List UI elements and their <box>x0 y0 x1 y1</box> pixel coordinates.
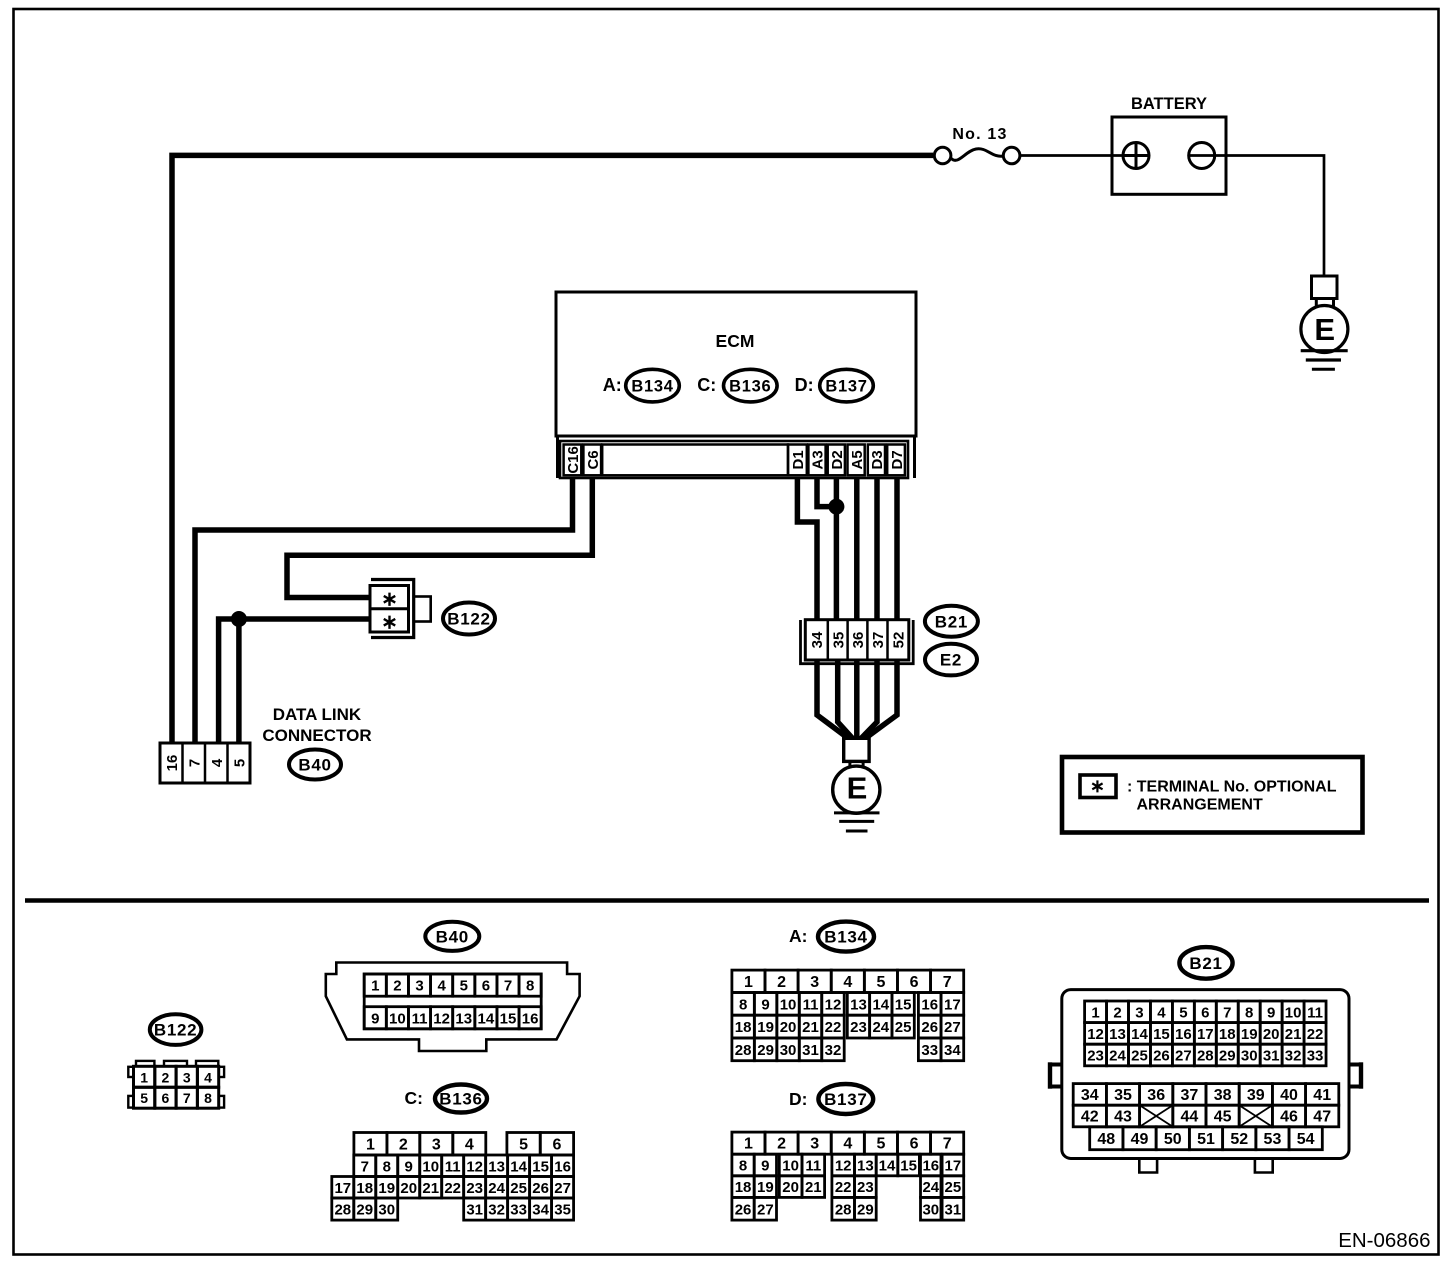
svg-text:25: 25 <box>510 1180 527 1197</box>
svg-text:A5: A5 <box>849 450 866 469</box>
svg-text:21: 21 <box>422 1180 439 1197</box>
svg-text:8: 8 <box>739 1158 747 1175</box>
svg-text:24: 24 <box>922 1179 939 1196</box>
svg-text:47: 47 <box>1313 1109 1331 1126</box>
svg-text:42: 42 <box>1081 1109 1099 1126</box>
svg-text:6: 6 <box>910 1136 919 1153</box>
svg-text:19: 19 <box>757 1019 774 1036</box>
DLC pin row 16 7 4 5 <box>160 743 250 783</box>
svg-text:17: 17 <box>944 996 961 1013</box>
svg-text:7: 7 <box>1223 1004 1231 1021</box>
svg-text:B21: B21 <box>935 612 968 631</box>
svg-text:2: 2 <box>777 974 786 991</box>
svg-text:2: 2 <box>777 1136 786 1153</box>
svg-text:8: 8 <box>383 1158 391 1175</box>
B136 row 7-16 <box>354 1155 376 1177</box>
svg-text:28: 28 <box>334 1202 351 1219</box>
connector B122 (2-pin) <box>371 580 414 638</box>
svg-text:5: 5 <box>1179 1004 1187 1021</box>
svg-text:13: 13 <box>455 1010 472 1027</box>
svg-text:ECM: ECM <box>716 331 755 351</box>
svg-text:27: 27 <box>1175 1048 1192 1065</box>
svg-text:A:: A: <box>789 926 807 946</box>
svg-text:37: 37 <box>870 632 887 649</box>
svg-text:D:: D: <box>795 375 814 395</box>
svg-text:31: 31 <box>466 1202 483 1219</box>
svg-text:11: 11 <box>445 1158 461 1175</box>
svg-text:14: 14 <box>1131 1026 1148 1043</box>
svg-text:27: 27 <box>554 1180 571 1197</box>
svg-text:E: E <box>1314 312 1335 347</box>
svg-text:33: 33 <box>510 1202 527 1219</box>
ECM pin C6 <box>583 445 601 476</box>
svg-text:D7: D7 <box>889 450 906 469</box>
svg-text:12: 12 <box>433 1010 450 1027</box>
svg-text:5: 5 <box>876 974 885 991</box>
legend: terminal optional arrangement <box>1062 757 1363 833</box>
svg-text:18: 18 <box>735 1179 752 1196</box>
svg-text:53: 53 <box>1264 1131 1282 1148</box>
svg-text:52: 52 <box>891 632 908 649</box>
ground symbol (battery side) <box>1301 349 1348 352</box>
svg-text:B134: B134 <box>824 928 867 947</box>
svg-text:C:: C: <box>405 1088 423 1108</box>
svg-text:20: 20 <box>1263 1026 1280 1043</box>
svg-text:14: 14 <box>510 1158 527 1175</box>
svg-text:21: 21 <box>805 1179 822 1196</box>
svg-text:ARRANGEMENT: ARRANGEMENT <box>1137 797 1263 814</box>
svg-text:∗: ∗ <box>381 589 398 611</box>
svg-text:29: 29 <box>757 1042 774 1059</box>
B122 pin grid 1-8 <box>134 1066 155 1087</box>
svg-text:A3: A3 <box>810 450 827 469</box>
wire: ECM D2 to B21 pin 35 <box>834 477 840 640</box>
svg-text:6: 6 <box>1201 1004 1209 1021</box>
svg-text:7: 7 <box>943 1136 952 1153</box>
svg-text:49: 49 <box>1131 1131 1149 1148</box>
svg-text:30: 30 <box>1241 1048 1258 1065</box>
svg-text:22: 22 <box>444 1180 461 1197</box>
B137 row 1-7 <box>732 1132 765 1154</box>
wire: ECM A5 to B21 pin 36 <box>854 477 860 640</box>
label oval B21 <box>925 606 978 637</box>
svg-text:B136: B136 <box>439 1090 482 1109</box>
svg-text:28: 28 <box>735 1042 752 1059</box>
svg-text:34: 34 <box>1081 1087 1099 1104</box>
svg-text:8: 8 <box>1245 1004 1253 1021</box>
svg-text:16: 16 <box>921 996 938 1013</box>
junction node (A3/D2) <box>828 499 844 515</box>
svg-text:34: 34 <box>809 631 826 648</box>
svg-text:14: 14 <box>879 1158 896 1175</box>
svg-text:29: 29 <box>857 1201 874 1218</box>
ECM box U1 <box>556 292 916 436</box>
svg-text:20: 20 <box>780 1019 797 1036</box>
wire: pin 52 to ground join <box>863 640 897 740</box>
wire: DLC pin 5 <box>236 619 242 743</box>
wire: ECM D1 to B21 pin 34 <box>797 477 817 640</box>
svg-text:26: 26 <box>532 1180 549 1197</box>
svg-text:18: 18 <box>356 1180 373 1197</box>
svg-text:26: 26 <box>921 1019 938 1036</box>
svg-text:29: 29 <box>356 1202 373 1219</box>
ECM pin D1 <box>788 445 807 476</box>
svg-text:12: 12 <box>1087 1026 1104 1043</box>
svg-text:B137: B137 <box>825 378 867 396</box>
svg-text:32: 32 <box>1285 1048 1302 1065</box>
ECM pin strip <box>560 441 908 478</box>
svg-text:D:: D: <box>789 1089 807 1109</box>
B21 grid 48-54 <box>1090 1127 1123 1150</box>
svg-text:31: 31 <box>945 1201 962 1218</box>
svg-text:2: 2 <box>399 1136 408 1153</box>
svg-text:CONNECTOR: CONNECTOR <box>262 726 371 745</box>
svg-text:35: 35 <box>554 1202 571 1219</box>
svg-text:4: 4 <box>437 978 446 995</box>
battery positive terminal <box>1123 143 1149 169</box>
svg-text:33: 33 <box>921 1042 938 1059</box>
svg-text:18: 18 <box>1219 1026 1236 1043</box>
svg-text:1: 1 <box>371 978 379 995</box>
wire: fuse to battery positive <box>1020 154 1123 157</box>
svg-text:14: 14 <box>872 996 889 1013</box>
wire: DLC pin 4 to B122 pin <box>219 619 370 743</box>
svg-text:6: 6 <box>910 974 919 991</box>
svg-text:13: 13 <box>850 996 867 1013</box>
section divider line <box>25 898 1429 903</box>
B21 grid 34-47 <box>1073 1084 1106 1106</box>
svg-text:1: 1 <box>744 974 753 991</box>
svg-text:4: 4 <box>204 1069 212 1085</box>
pin row 34 35 36 37 52 <box>805 620 909 660</box>
svg-text:13: 13 <box>1109 1026 1126 1043</box>
svg-text:4: 4 <box>209 758 226 767</box>
svg-text:8: 8 <box>526 978 534 995</box>
svg-text:38: 38 <box>1214 1087 1232 1104</box>
B21 grid 1-33 <box>1085 1001 1107 1023</box>
svg-text:19: 19 <box>1241 1026 1258 1043</box>
svg-text:C16: C16 <box>565 446 582 474</box>
svg-text:D2: D2 <box>829 450 846 469</box>
svg-text:13: 13 <box>488 1158 505 1175</box>
svg-text:10: 10 <box>389 1010 406 1027</box>
svg-text:21: 21 <box>802 1019 819 1036</box>
svg-text:48: 48 <box>1097 1131 1115 1148</box>
svg-text:D1: D1 <box>790 450 807 469</box>
svg-text:10: 10 <box>780 996 797 1013</box>
wire: ECM A3 to junction <box>817 477 836 507</box>
svg-text:32: 32 <box>825 1042 842 1059</box>
svg-text:5: 5 <box>460 978 468 995</box>
svg-text:54: 54 <box>1297 1131 1315 1148</box>
svg-text:16: 16 <box>554 1158 571 1175</box>
B137 row 8-17 <box>732 1154 754 1176</box>
B40 housing outline <box>326 963 580 1052</box>
svg-text:12: 12 <box>825 996 842 1013</box>
svg-text:32: 32 <box>488 1202 505 1219</box>
svg-text:18: 18 <box>735 1019 752 1036</box>
svg-text:3: 3 <box>432 1136 441 1153</box>
ground terminal E (sensor ground) <box>844 738 869 761</box>
ECM pin C16 <box>564 445 582 476</box>
svg-text:34: 34 <box>532 1202 549 1219</box>
svg-text:16: 16 <box>164 755 181 772</box>
ECM pin D3 <box>868 445 885 476</box>
B21 crossed-out cells <box>1140 1105 1173 1127</box>
svg-text:44: 44 <box>1181 1109 1199 1126</box>
svg-text:16: 16 <box>1175 1026 1192 1043</box>
svg-text:21: 21 <box>1285 1026 1302 1043</box>
svg-text:2: 2 <box>162 1069 170 1085</box>
svg-text:6: 6 <box>552 1136 561 1153</box>
svg-text:4: 4 <box>843 974 852 991</box>
svg-text:E2: E2 <box>940 651 962 670</box>
svg-text:24: 24 <box>872 1019 889 1036</box>
B137 thick divider <box>940 1154 944 1220</box>
svg-text:17: 17 <box>334 1180 351 1197</box>
svg-text:4: 4 <box>843 1136 852 1153</box>
svg-text:2: 2 <box>1113 1004 1121 1021</box>
B136 row 17-27 <box>332 1177 354 1199</box>
svg-text:EN-06866: EN-06866 <box>1338 1229 1430 1252</box>
svg-text:11: 11 <box>803 996 819 1013</box>
wire: pin 36 to ground join <box>854 640 860 739</box>
B137 row 18-25 <box>732 1176 754 1198</box>
svg-text:7: 7 <box>183 1090 191 1106</box>
svg-text:33: 33 <box>1307 1048 1324 1065</box>
svg-text:52: 52 <box>1230 1131 1248 1148</box>
svg-text:11: 11 <box>412 1010 428 1027</box>
svg-text:B122: B122 <box>154 1021 197 1040</box>
svg-text:∗: ∗ <box>381 612 398 634</box>
svg-text:30: 30 <box>922 1201 939 1218</box>
svg-text:15: 15 <box>500 1010 517 1027</box>
svg-text:36: 36 <box>850 632 867 649</box>
svg-text:34: 34 <box>944 1042 961 1059</box>
connector pinout B122 <box>150 1014 202 1045</box>
B21 left mount tab <box>1048 1063 1062 1067</box>
svg-text:24: 24 <box>488 1180 505 1197</box>
wire: pin 35 to ground join <box>838 640 854 740</box>
svg-text:∗: ∗ <box>1090 776 1105 796</box>
B122 housing bumps and tabs <box>136 1061 154 1066</box>
svg-text:5: 5 <box>519 1136 528 1153</box>
svg-text:25: 25 <box>945 1179 962 1196</box>
B136 row 1-6 <box>354 1133 387 1156</box>
svg-text:23: 23 <box>857 1179 874 1196</box>
svg-text:12: 12 <box>835 1158 852 1175</box>
svg-text:B21: B21 <box>1189 954 1222 973</box>
wire: ECM C16 to DLC pin 7 <box>195 477 573 743</box>
svg-text:35: 35 <box>1114 1087 1132 1104</box>
svg-text:35: 35 <box>830 632 847 649</box>
svg-text:24: 24 <box>1109 1048 1126 1065</box>
junction node (pins 4/5) <box>231 611 247 627</box>
svg-text:9: 9 <box>1267 1004 1275 1021</box>
svg-text:37: 37 <box>1181 1087 1199 1104</box>
svg-text:19: 19 <box>378 1180 395 1197</box>
svg-text:22: 22 <box>825 1019 842 1036</box>
svg-text:10: 10 <box>422 1158 439 1175</box>
svg-text:4: 4 <box>465 1136 474 1153</box>
wire: ECM D3 to B21 pin 37 <box>874 477 880 640</box>
svg-text:23: 23 <box>850 1019 867 1036</box>
label oval E2 <box>925 644 977 676</box>
svg-text:7: 7 <box>361 1158 369 1175</box>
connector pinout B21 <box>1179 947 1232 979</box>
wire: pin 37 to ground join <box>860 640 878 740</box>
svg-text:B122: B122 <box>447 610 490 629</box>
svg-text:9: 9 <box>761 996 769 1013</box>
svg-text:19: 19 <box>757 1179 774 1196</box>
ECM pin D2 <box>828 445 845 476</box>
B137 row 26-31 <box>732 1197 754 1220</box>
svg-text:46: 46 <box>1280 1109 1298 1126</box>
svg-text:DATA LINK: DATA LINK <box>273 705 362 724</box>
svg-text:23: 23 <box>466 1180 483 1197</box>
wire: pin 34 to ground join <box>817 640 851 740</box>
svg-text:41: 41 <box>1313 1087 1331 1104</box>
ground terminal E (battery side) <box>1312 276 1338 299</box>
svg-text:5: 5 <box>231 759 248 767</box>
svg-text:20: 20 <box>400 1180 417 1197</box>
B134 row 28-34 <box>732 1038 754 1061</box>
svg-text:B40: B40 <box>436 927 469 946</box>
svg-text:3: 3 <box>415 978 423 995</box>
svg-text:17: 17 <box>945 1158 962 1175</box>
B134 row 1-7 <box>732 970 765 992</box>
svg-text:28: 28 <box>1197 1048 1214 1065</box>
svg-text:2: 2 <box>393 978 401 995</box>
svg-text:15: 15 <box>532 1158 549 1175</box>
svg-text:45: 45 <box>1214 1109 1232 1126</box>
svg-text:B134: B134 <box>631 378 673 396</box>
svg-text:7: 7 <box>943 974 952 991</box>
B21 bottom tabs <box>1139 1159 1157 1173</box>
B134 row 18-27 <box>732 1015 754 1038</box>
battery negative terminal <box>1189 143 1215 169</box>
svg-text:15: 15 <box>895 996 912 1013</box>
svg-text:27: 27 <box>944 1019 961 1036</box>
svg-text:27: 27 <box>757 1201 774 1218</box>
svg-text:6: 6 <box>162 1090 170 1106</box>
svg-text:30: 30 <box>378 1202 395 1219</box>
svg-text:6: 6 <box>482 978 490 995</box>
wire: ECM C6 to B122 pin <box>287 477 592 598</box>
svg-text:11: 11 <box>805 1158 821 1175</box>
svg-text:51: 51 <box>1197 1131 1215 1148</box>
svg-text:8: 8 <box>204 1090 212 1106</box>
ground symbol (sensor side) <box>834 811 880 814</box>
svg-text:1: 1 <box>1091 1004 1099 1021</box>
svg-text:28: 28 <box>835 1201 852 1218</box>
svg-text:1: 1 <box>366 1136 375 1153</box>
svg-text:7: 7 <box>186 759 203 767</box>
ECM pin A3 <box>808 445 825 476</box>
svg-text:23: 23 <box>1087 1048 1104 1065</box>
svg-text:22: 22 <box>1307 1026 1324 1043</box>
B40 pin grid 1-16 <box>364 974 541 1029</box>
svg-text:31: 31 <box>802 1042 819 1059</box>
svg-text:10: 10 <box>1285 1004 1302 1021</box>
B134 row 8-17 <box>732 993 754 1016</box>
svg-text:C:: C: <box>697 375 716 395</box>
svg-text:1: 1 <box>140 1069 148 1085</box>
svg-text:3: 3 <box>183 1069 191 1085</box>
fuse No. 13 <box>934 147 951 164</box>
svg-text:31: 31 <box>1263 1048 1280 1065</box>
svg-text:10: 10 <box>782 1158 799 1175</box>
svg-text:15: 15 <box>1153 1026 1170 1043</box>
svg-text:B136: B136 <box>729 378 771 396</box>
svg-text:5: 5 <box>140 1090 148 1106</box>
connector housing bracket B21/E2 <box>801 620 914 664</box>
svg-text:25: 25 <box>1131 1048 1148 1065</box>
svg-text:25: 25 <box>895 1019 912 1036</box>
svg-text:13: 13 <box>857 1158 874 1175</box>
ECM pin A5 <box>848 445 865 476</box>
svg-text:29: 29 <box>1219 1048 1236 1065</box>
svg-text:A:: A: <box>603 375 622 395</box>
label oval B40 <box>289 750 341 780</box>
wire: ECM D7 to B21 pin 52 <box>894 477 900 640</box>
svg-text:: TERMINAL No. OPTIONAL: : TERMINAL No. OPTIONAL <box>1127 779 1337 796</box>
svg-text:3: 3 <box>810 974 819 991</box>
svg-text:26: 26 <box>1153 1048 1170 1065</box>
svg-text:30: 30 <box>780 1042 797 1059</box>
svg-text:7: 7 <box>504 978 512 995</box>
svg-text:36: 36 <box>1147 1087 1165 1104</box>
svg-text:16: 16 <box>522 1010 539 1027</box>
svg-text:B40: B40 <box>298 756 331 775</box>
svg-text:39: 39 <box>1247 1087 1265 1104</box>
svg-text:C6: C6 <box>585 450 602 469</box>
svg-text:17: 17 <box>1197 1026 1214 1043</box>
B21 housing outline <box>1062 990 1349 1159</box>
svg-text:20: 20 <box>782 1179 799 1196</box>
svg-text:50: 50 <box>1164 1131 1182 1148</box>
ECM pin D7 <box>887 445 905 476</box>
svg-text:11: 11 <box>1307 1004 1323 1021</box>
svg-text:14: 14 <box>478 1010 495 1027</box>
svg-text:No. 13: No. 13 <box>952 126 1007 143</box>
svg-text:B137: B137 <box>824 1090 867 1109</box>
svg-text:5: 5 <box>876 1136 885 1153</box>
svg-text:43: 43 <box>1114 1109 1132 1126</box>
B21 right mount tab <box>1349 1063 1363 1067</box>
svg-text:15: 15 <box>900 1158 917 1175</box>
svg-text:12: 12 <box>466 1158 483 1175</box>
svg-text:1: 1 <box>744 1136 753 1153</box>
svg-text:9: 9 <box>405 1158 413 1175</box>
svg-text:3: 3 <box>1135 1004 1143 1021</box>
wire: battery feed from fuse to DLC pin 16 <box>172 155 933 743</box>
svg-text:16: 16 <box>922 1158 939 1175</box>
label oval B122 <box>443 603 495 635</box>
wire: battery negative to ground E <box>1189 156 1324 277</box>
svg-text:4: 4 <box>1157 1004 1166 1021</box>
svg-text:D3: D3 <box>869 450 886 469</box>
svg-text:3: 3 <box>810 1136 819 1153</box>
ECM pin strip spacer <box>602 445 788 476</box>
svg-text:E: E <box>847 771 868 806</box>
connector pinout B40 <box>425 922 479 951</box>
svg-text:26: 26 <box>735 1201 752 1218</box>
svg-text:BATTERY: BATTERY <box>1131 95 1207 113</box>
svg-text:8: 8 <box>739 996 747 1013</box>
svg-text:9: 9 <box>761 1158 769 1175</box>
B136 row 28-35 <box>332 1198 354 1220</box>
